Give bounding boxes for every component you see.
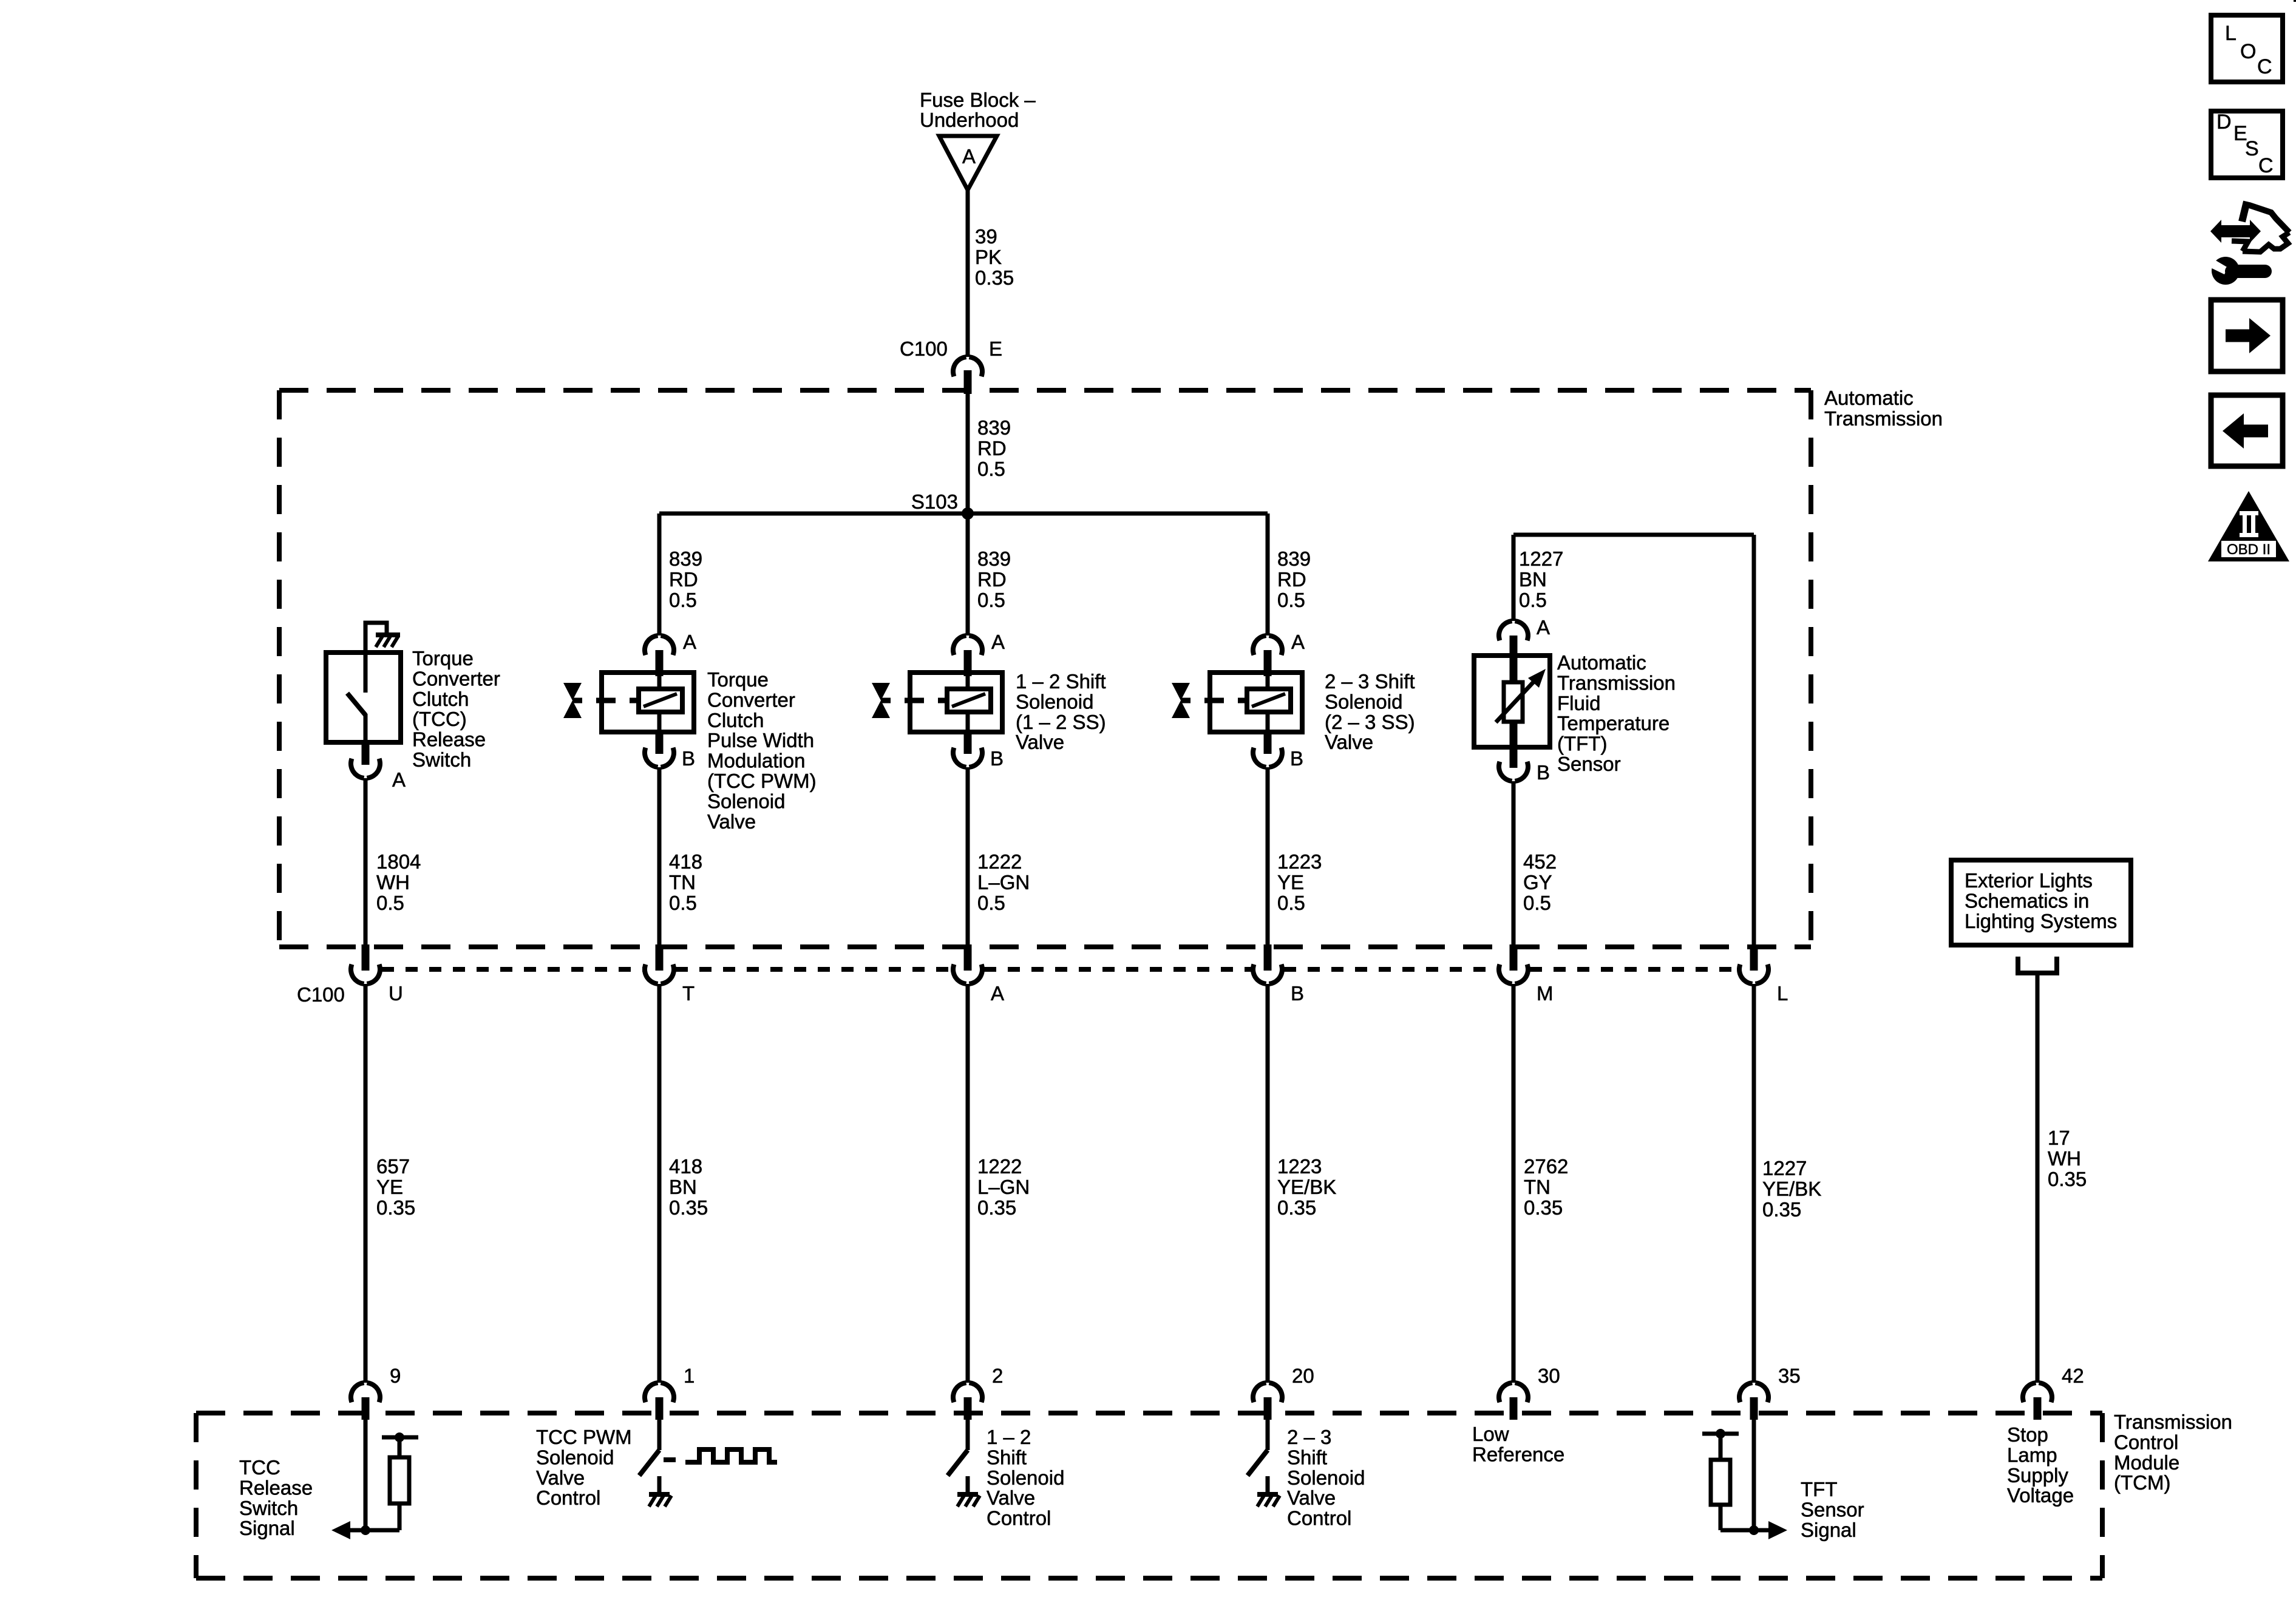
connector A stub (1-2 shift) [964,650,972,676]
svg-text:0.35: 0.35 [2048,1168,2087,1190]
TCM pin 35 [1739,1383,1753,1402]
svg-text:1223: 1223 [1277,1155,1322,1178]
svg-text:2 – 3: 2 – 3 [1287,1426,1331,1448]
connector B (TFT) [1499,762,1512,781]
svg-text:B: B [1290,747,1303,770]
svg-text:L–GN: L–GN [977,1176,1030,1198]
svg-text:Reference: Reference [1472,1443,1564,1465]
wire TCC PWM to C100 [657,767,662,944]
svg-text:839: 839 [1277,547,1311,570]
svg-text:0.5: 0.5 [1523,892,1551,914]
connector A (TFT) [1499,621,1512,640]
svg-text:Signal: Signal [1801,1519,1856,1541]
svg-text:Release: Release [412,728,486,751]
TCM dashed box [196,1411,2102,1415]
svg-text:1222: 1222 [977,1155,1022,1178]
svg-text:L: L [2225,22,2237,45]
switch S (TCC release) box [326,653,401,742]
connector B stub (1-2 shift) [966,710,970,733]
svg-text:Converter: Converter [412,667,500,690]
svg-text:YE/BK: YE/BK [1277,1176,1336,1198]
svg-text:C100: C100 [900,337,948,360]
svg-text:RD: RD [977,437,1007,459]
svg-text:Supply: Supply [2007,1464,2068,1486]
svg-text:0.5: 0.5 [1519,589,1547,611]
TCC release switch ground wire [365,623,387,653]
svg-text:Valve: Valve [707,810,756,833]
svg-text:1 – 2 Shift: 1 – 2 Shift [1016,670,1106,693]
svg-text:A: A [991,631,1005,653]
svg-text:RD: RD [1277,568,1306,591]
connector B (1-2 shift) [953,748,966,767]
svg-text:1: 1 [684,1364,695,1387]
TFT sensor box [1474,656,1550,747]
pin 35 internal node bar [1702,1432,1739,1436]
svg-text:O: O [2240,40,2256,63]
svg-text:30: 30 [1538,1364,1560,1387]
svg-text:A: A [962,145,976,168]
svg-text:0.5: 0.5 [977,458,1005,480]
connector B stub (2-3 shift) [1266,710,1270,733]
svg-text:Pulse Width: Pulse Width [707,729,814,751]
back arrow icon box [2211,395,2283,466]
svg-text:Control: Control [536,1486,600,1509]
svg-text:839: 839 [669,547,702,570]
connector A (TCC PWM) [645,636,658,655]
adjust icon double arrow [2210,220,2261,243]
svg-text:WH: WH [376,871,410,893]
svg-text:L: L [1777,982,1788,1005]
connector C100 M [1499,964,1512,984]
wire pin 35 internal [1752,1420,1756,1530]
svg-text:A: A [1537,616,1550,639]
svg-text:0.35: 0.35 [977,1196,1016,1219]
svg-text:0.5: 0.5 [669,589,697,611]
connector C100 T stub [656,944,664,971]
svg-text:Valve: Valve [1325,731,1373,753]
svg-text:1222: 1222 [977,850,1022,873]
solenoid 1-2 shift box [910,673,1002,732]
wire 839 RD to S103 [966,393,970,514]
TCC release switch signal arrow [331,1521,350,1539]
svg-text:Signal: Signal [239,1517,295,1539]
fuse block triangle A [939,136,997,190]
TCM pin 9 [351,1383,364,1402]
svg-text:L–GN: L–GN [977,871,1030,893]
solenoid 2-3 shift box [1210,673,1302,732]
solenoid TCC PWM box [602,673,694,732]
exterior lights box [1951,860,2131,945]
adjust icon wrench [2212,257,2240,285]
svg-text:Module: Module [2114,1451,2179,1474]
svg-text:TCC PWM: TCC PWM [536,1426,632,1448]
ground (pin 1) [649,1492,670,1497]
svg-text:418: 418 [669,1155,702,1178]
switch S contact upper [364,653,368,693]
svg-text:D: D [2216,110,2232,134]
svg-text:RD: RD [669,568,698,591]
svg-text:Valve: Valve [1287,1486,1336,1509]
wire 39 PK from fuse block [966,190,970,357]
svg-text:C: C [2257,55,2272,78]
svg-text:Transmission: Transmission [1824,407,1943,430]
ground (TCC release switch) [376,632,400,637]
connector C100 M stub [1510,944,1518,971]
svg-text:Sensor: Sensor [1557,753,1621,775]
svg-text:A: A [991,982,1004,1005]
wire 17 WH to TCM pin 42 [2036,973,2040,1383]
svg-text:9: 9 [390,1364,401,1387]
switch (pin 1 TCC PWM control) [639,1450,659,1476]
svg-text:Torque: Torque [707,668,769,691]
svg-text:Control: Control [987,1507,1051,1530]
svg-text:PK: PK [975,246,1002,268]
svg-text:0.35: 0.35 [975,266,1014,289]
svg-text:Transmission: Transmission [1557,671,1676,694]
svg-text:Switch: Switch [412,748,471,771]
switch S blade [347,693,365,715]
svg-text:WH: WH [2048,1147,2081,1170]
svg-text:0.5: 0.5 [669,892,697,914]
svg-text:Fuse Block –: Fuse Block – [920,89,1036,111]
svg-text:0.35: 0.35 [1524,1196,1563,1219]
svg-text:0.35: 0.35 [1277,1196,1316,1219]
svg-text:657: 657 [376,1155,410,1178]
connector B (2-3 shift) [1253,748,1266,767]
svg-text:YE: YE [1277,871,1304,893]
pin 9 junction dot [361,1525,370,1535]
TCM pin 30 [1499,1383,1512,1402]
svg-text:Transmission: Transmission [2114,1411,2232,1433]
connector A (TCC switch) [351,759,364,778]
svg-text:Schematics in: Schematics in [1965,889,2089,912]
svg-text:Solenoid: Solenoid [536,1446,614,1468]
svg-text:2762: 2762 [1524,1155,1568,1178]
svg-text:1227: 1227 [1519,547,1563,570]
ground (pin 2) [957,1492,978,1497]
wire S103 to 2-3 solenoid [1266,514,1270,636]
svg-text:RD: RD [977,568,1007,591]
svg-text:Voltage: Voltage [2007,1484,2074,1507]
wire C100 L to TCM [1752,984,1756,1383]
svg-text:TN: TN [1524,1176,1550,1198]
connector C100 U stub [362,944,370,971]
svg-text:Automatic: Automatic [1824,387,1914,409]
TFT sensor signal arrow [1768,1521,1787,1539]
svg-text:B: B [1291,982,1304,1005]
svg-text:Valve: Valve [987,1486,1035,1509]
svg-text:Control: Control [1287,1507,1351,1530]
svg-text:YE: YE [376,1176,403,1198]
svg-text:Underhood: Underhood [920,109,1019,131]
svg-text:839: 839 [977,416,1011,439]
ground (pin 20) [1257,1492,1278,1497]
svg-text:E: E [989,337,1002,360]
svg-text:(TCC PWM): (TCC PWM) [707,770,817,792]
svg-text:Switch: Switch [239,1497,298,1519]
PWM waveform [685,1449,777,1462]
svg-text:1227: 1227 [1762,1157,1807,1179]
svg-text:839: 839 [977,547,1011,570]
svg-text:T: T [682,982,695,1005]
svg-text:0.35: 0.35 [376,1196,415,1219]
connector A (2-3 shift) [1253,636,1266,655]
svg-text:TCC: TCC [239,1456,280,1479]
pintle valve symbol (1-2 shift) [872,683,890,700]
LOC icon box [2211,15,2283,82]
svg-text:Torque: Torque [412,647,474,670]
svg-text:Shift: Shift [987,1446,1027,1468]
resistor (pin 35) [1720,1528,1754,1533]
svg-text:Temperature: Temperature [1557,712,1669,734]
connector C100 T [645,964,658,984]
wire pin 2 internal [966,1420,970,1450]
svg-text:YE/BK: YE/BK [1762,1178,1821,1200]
forward arrow icon box [2211,300,2283,371]
svg-text:(2 – 3 SS): (2 – 3 SS) [1325,711,1415,733]
svg-text:BN: BN [669,1176,697,1198]
S103 bus wire [659,512,1268,516]
svg-text:(TCC): (TCC) [412,708,467,730]
page corner mark [2294,0,2296,2]
svg-text:Exterior Lights: Exterior Lights [1965,869,2093,892]
wire C100 M to TCM [1512,984,1516,1383]
svg-text:2: 2 [992,1364,1003,1387]
svg-text:Valve: Valve [1016,731,1064,753]
connector C100 E [953,357,966,376]
svg-text:Shift: Shift [1287,1446,1327,1468]
svg-text:OBD II: OBD II [2227,541,2271,558]
svg-text:A: A [683,631,696,653]
C100 dotted connector line [382,967,643,972]
svg-text:A: A [1291,631,1305,653]
TCM pin 2 [953,1383,966,1402]
svg-text:0.5: 0.5 [1277,589,1305,611]
svg-text:(1 – 2 SS): (1 – 2 SS) [1016,711,1106,733]
wire C100 U to TCM [364,984,368,1383]
svg-text:Solenoid: Solenoid [707,790,785,812]
TCM pin 20 [1253,1383,1266,1402]
svg-text:B: B [990,747,1004,770]
wire switch to C100 U [364,778,368,944]
connector C100 U [351,964,364,984]
svg-text:2 – 3 Shift: 2 – 3 Shift [1325,670,1415,693]
switch (pin 2 1-2 control) [948,1450,968,1476]
svg-text:Fluid: Fluid [1557,692,1601,714]
TCM pin 1 [645,1383,658,1402]
svg-text:S103: S103 [911,490,958,513]
svg-text:418: 418 [669,850,702,873]
svg-text:TFT: TFT [1801,1478,1837,1500]
connector A stub (TFT) [1510,636,1518,683]
wire pin 1 internal [657,1420,662,1450]
svg-text:Release: Release [239,1476,313,1499]
svg-text:Stop: Stop [2007,1423,2048,1446]
svg-text:20: 20 [1292,1364,1314,1387]
adjust icon hand outline [2242,202,2247,222]
svg-text:42: 42 [2062,1364,2084,1387]
pintle valve symbol (2-3 shift) [1172,683,1190,700]
svg-text:0.35: 0.35 [1762,1198,1801,1221]
svg-text:Clutch: Clutch [412,688,469,710]
svg-text:(TFT): (TFT) [1557,733,1607,755]
svg-text:BN: BN [1519,568,1547,591]
connector C100 B stub [1264,944,1272,971]
connector B stub (TFT) [1510,722,1518,768]
OBD II triangle icon [2208,491,2289,561]
svg-text:B: B [682,747,695,770]
wire S103 to 1-2 solenoid [966,514,970,636]
svg-text:Valve: Valve [536,1466,585,1489]
svg-text:1804: 1804 [376,850,421,873]
svg-text:452: 452 [1523,850,1557,873]
svg-text:0.5: 0.5 [1277,892,1305,914]
svg-text:0.5: 0.5 [376,892,404,914]
svg-text:C100: C100 [297,983,345,1006]
svg-text:Lighting Systems: Lighting Systems [1965,910,2117,932]
switch (pin 20 2-3 control) [1248,1450,1268,1476]
svg-text:M: M [1537,982,1554,1005]
svg-text:0.35: 0.35 [669,1196,708,1219]
pintle valve symbol (TCC PWM) [563,683,582,700]
svg-text:Sensor: Sensor [1801,1498,1864,1520]
svg-text:17: 17 [2048,1127,2070,1149]
svg-text:35: 35 [1778,1364,1801,1387]
svg-text:Lamp: Lamp [2007,1443,2057,1466]
svg-text:GY: GY [1523,871,1552,893]
TCM pin 42 [2023,1383,2036,1402]
svg-text:1 – 2: 1 – 2 [987,1426,1031,1448]
wire C100 T to TCM [657,984,662,1383]
solenoid coil (TCC PWM) [639,689,682,712]
svg-text:Solenoid: Solenoid [1016,690,1093,713]
wire S103 to TCC PWM solenoid [657,514,662,636]
splice S103 junction dot [962,507,974,520]
wire pin 9 internal [364,1420,368,1530]
svg-text:C: C [2258,154,2274,177]
svg-text:Solenoid: Solenoid [1325,690,1402,713]
svg-text:U: U [389,982,403,1005]
thermistor (TFT) [1504,682,1523,722]
off-page bracket [2018,957,2057,973]
svg-text:Solenoid: Solenoid [987,1466,1064,1489]
solenoid coil (1-2 shift) [947,689,991,712]
connector A stub (2-3 shift) [1264,650,1272,676]
svg-text:39: 39 [975,225,997,248]
svg-text:Modulation: Modulation [707,750,805,772]
svg-text:0.5: 0.5 [977,589,1005,611]
svg-text:A: A [392,768,406,791]
connector C100 A stub [964,944,972,971]
wire C100 A to TCM [966,984,970,1383]
svg-text:(TCM): (TCM) [2114,1471,2170,1494]
connector C100 L stub [1750,944,1758,971]
connector C100 L [1739,964,1753,984]
pin 35 junction dot [1749,1525,1759,1535]
wire pin 20 internal [1266,1420,1270,1450]
connector C100 B [1253,964,1266,984]
svg-text:TN: TN [669,871,696,893]
resistor (pin 9) [398,1503,402,1530]
svg-text:Low: Low [1472,1423,1509,1445]
svg-text:1223: 1223 [1277,850,1322,873]
TFT loop wire [1513,533,1754,537]
wire 2-3 shift to C100 [1266,767,1270,944]
connector B (TCC PWM) [645,748,658,767]
PWM dash [664,1457,676,1462]
connector B stub (TCC PWM) [657,710,662,733]
svg-text:Clutch: Clutch [707,709,764,731]
svg-text:Converter: Converter [707,688,795,711]
DESC icon box [2211,111,2283,178]
svg-text:Solenoid: Solenoid [1287,1466,1365,1489]
wire 1-2 shift to C100 [966,767,970,944]
connector A stub (TCC PWM) [656,650,664,676]
connector C100 A [953,964,966,984]
svg-text:B: B [1537,761,1550,784]
svg-text:Control: Control [2114,1431,2178,1453]
svg-text:0.5: 0.5 [977,892,1005,914]
pin 9 internal node bar [382,1436,418,1440]
connector A stub (TCC switch) [362,742,370,765]
svg-text:Automatic: Automatic [1557,651,1646,674]
svg-text:S: S [2245,137,2259,160]
wire TFT to C100 M [1512,781,1516,944]
solenoid coil (2-3 shift) [1247,689,1291,712]
automatic transmission dashed box [279,388,1811,393]
connector A (1-2 shift) [953,636,966,655]
wire C100 B to TCM [1266,984,1270,1383]
